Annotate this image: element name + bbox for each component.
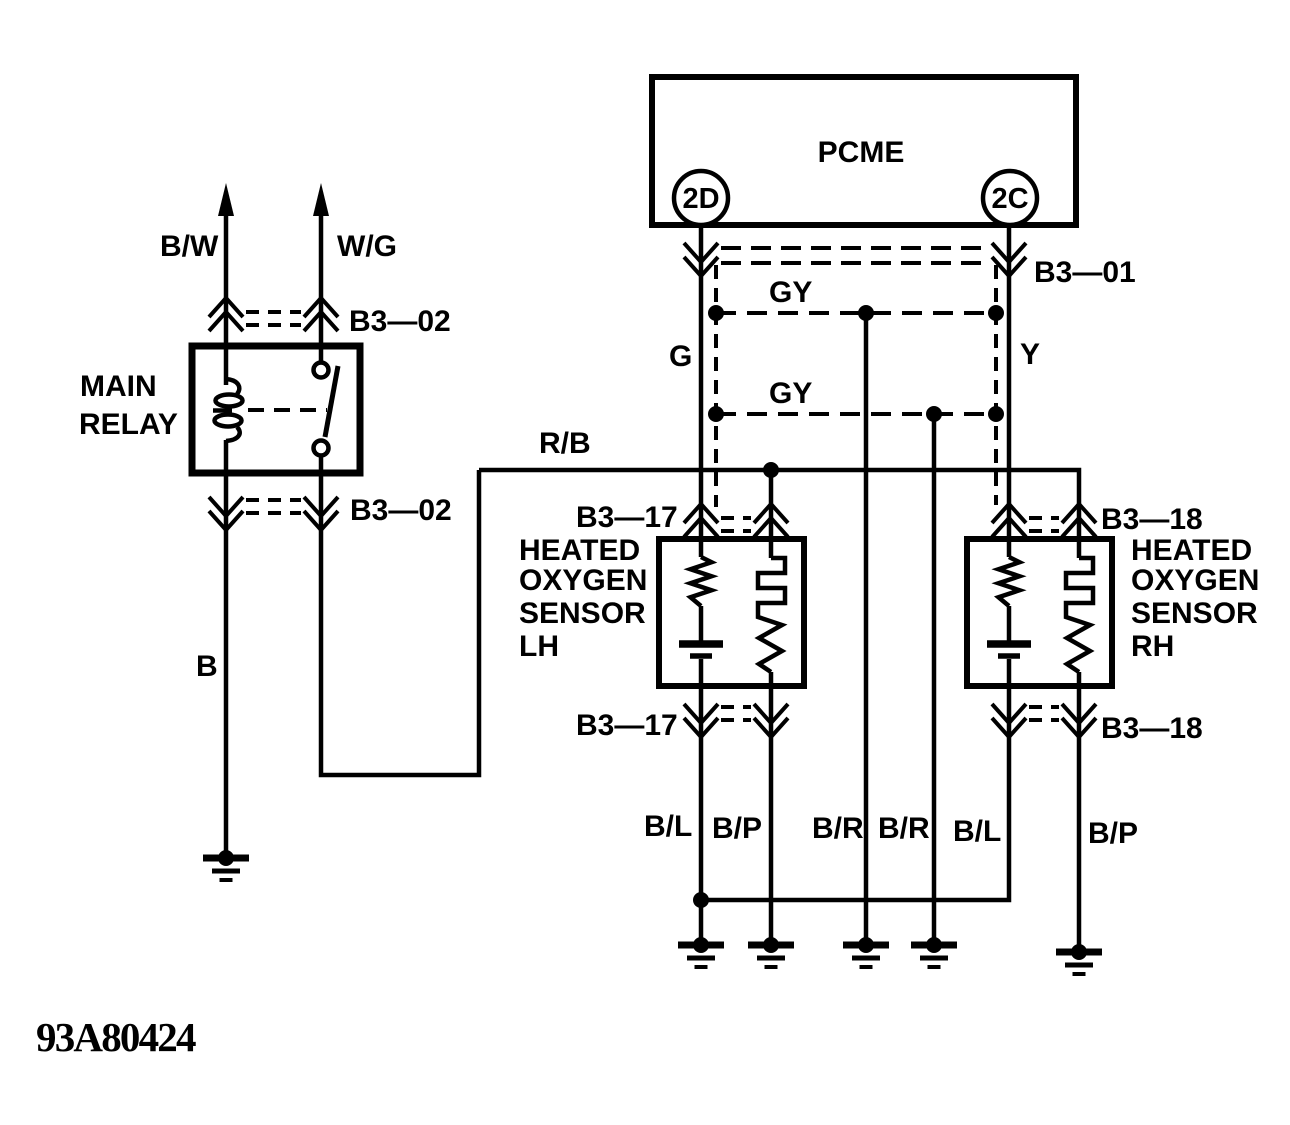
svg-text:SENSOR: SENSOR — [519, 597, 646, 630]
svg-text:B/L: B/L — [953, 815, 1001, 848]
junctions GY upper — [708, 305, 1004, 321]
svg-text:G: G — [669, 340, 692, 373]
wire W/G arrow to power — [313, 183, 397, 363]
relay coil — [213, 379, 243, 441]
PCME pin 2C — [983, 171, 1037, 225]
ground B/R left — [843, 937, 889, 967]
PCME control module box — [652, 77, 1076, 225]
RH sensor cell battery — [987, 606, 1031, 656]
svg-text:MAIN: MAIN — [80, 370, 157, 403]
ground for wire B — [203, 850, 249, 880]
svg-text:2D: 2D — [682, 183, 719, 215]
wire W/G relay output loop — [321, 455, 479, 775]
PCME pin 2D — [674, 171, 728, 225]
svg-text:HEATED: HEATED — [1131, 534, 1252, 567]
wire B/P RH heater to ground — [1079, 672, 1138, 952]
connector B3-17 lower — [576, 704, 788, 742]
LH sensor cell battery — [679, 606, 723, 656]
relay switch contacts — [314, 363, 329, 456]
svg-text:GY: GY — [769, 377, 812, 410]
connector B3-18 upper — [992, 503, 1203, 537]
svg-text:B/L: B/L — [644, 810, 692, 843]
svg-text:W/G: W/G — [337, 230, 397, 263]
svg-text:PCME: PCME — [818, 136, 905, 169]
svg-text:R/B: R/B — [539, 427, 591, 460]
connector B3-02 lower — [209, 494, 452, 530]
ground B/R right — [911, 937, 957, 967]
wire B/P LH heater to ground — [712, 672, 771, 945]
junctions GY lower — [708, 406, 1004, 422]
svg-text:Y: Y — [1020, 338, 1040, 371]
svg-text:2C: 2C — [991, 183, 1028, 215]
connector B3-01 — [684, 243, 1136, 289]
svg-text:B3—02: B3—02 — [349, 305, 451, 338]
svg-text:B3—17: B3—17 — [576, 501, 678, 534]
wire B/R right to ground — [878, 414, 934, 945]
relay switch blade — [325, 366, 338, 437]
svg-text:OXYGEN: OXYGEN — [519, 564, 647, 597]
wire B/W arrow to power — [160, 183, 234, 385]
svg-text:B/W: B/W — [160, 230, 219, 263]
heated oxygen sensor RH box — [967, 534, 1259, 686]
LH heater resistor — [758, 470, 785, 672]
junction R/B to LH heater — [763, 462, 779, 478]
wire B coil to ground — [196, 440, 226, 856]
ground B/P LH — [748, 937, 794, 967]
figure number 93A80424 — [36, 1014, 196, 1060]
svg-text:SENSOR: SENSOR — [1131, 597, 1258, 630]
svg-text:GY: GY — [769, 276, 812, 309]
svg-text:B/R: B/R — [812, 812, 864, 845]
svg-text:B3—18: B3—18 — [1101, 503, 1203, 536]
RH sensor element resistor — [999, 557, 1020, 606]
wire GY upper dashed — [716, 276, 996, 313]
wire R/B feed line — [479, 427, 1079, 558]
svg-text:B/P: B/P — [712, 812, 762, 845]
wire B/R left to ground — [812, 313, 866, 945]
relay link dashed — [248, 408, 327, 412]
RH heater resistor — [1066, 558, 1093, 672]
wire Y from 2C — [1009, 225, 1040, 557]
svg-text:B: B — [196, 650, 218, 683]
svg-text:93A80424: 93A80424 — [36, 1014, 196, 1060]
wire G from 2D — [669, 225, 701, 557]
svg-text:LH: LH — [519, 630, 559, 663]
svg-text:B3—18: B3—18 — [1101, 712, 1203, 745]
svg-text:RELAY: RELAY — [79, 408, 178, 441]
ground B/L LH — [678, 937, 724, 967]
wire B/L RH signal to bus — [701, 659, 1009, 900]
heated oxygen sensor LH box — [519, 534, 804, 686]
LH sensor element resistor — [691, 557, 712, 606]
svg-text:RH: RH — [1131, 630, 1174, 663]
svg-text:OXYGEN: OXYGEN — [1131, 564, 1259, 597]
connector B3-17 upper — [576, 501, 788, 537]
svg-text:HEATED: HEATED — [519, 534, 640, 567]
main relay box — [79, 346, 360, 473]
svg-text:B3—01: B3—01 — [1034, 256, 1136, 289]
svg-text:B/P: B/P — [1088, 817, 1138, 850]
connector B3-18 lower — [992, 704, 1203, 745]
svg-text:B3—17: B3—17 — [576, 709, 678, 742]
wire B/L LH signal to ground — [644, 659, 701, 945]
svg-text:B3—02: B3—02 — [350, 494, 452, 527]
shield drain left dashed — [714, 265, 718, 507]
svg-text:B/R: B/R — [878, 812, 930, 845]
ground B/P RH — [1056, 944, 1102, 974]
wire GY lower dashed — [716, 377, 996, 414]
junction bus at LH ground — [693, 892, 709, 908]
connector B3-02 upper — [209, 298, 451, 338]
shield drain right dashed — [994, 265, 998, 505]
